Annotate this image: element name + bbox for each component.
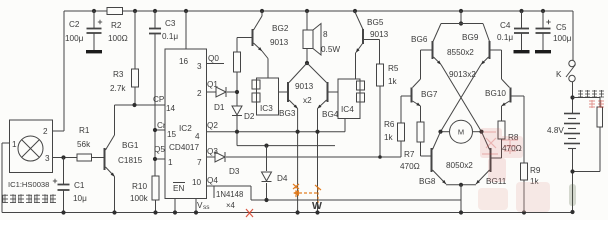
wire Q2 row: [207, 131, 346, 133]
transistor BG10 collector diag: [502, 79, 510, 88]
svg-text:CD4017: CD4017: [169, 143, 199, 152]
node junction rail BG4: [315, 210, 319, 214]
transistor BG8 emitter: [433, 170, 447, 184]
label R5: [388, 64, 399, 73]
wire IC2 pin16 vdd: [185, 11, 187, 49]
transistor BG3 emitter: [289, 100, 298, 109]
label R9: [530, 166, 541, 175]
wire speaker top stem: [306, 11, 308, 30]
svg-text:C1: C1: [74, 181, 85, 190]
wire switch to battery: [572, 82, 574, 113]
svg-text:C5: C5: [556, 23, 567, 32]
label IC2 pin 10: [192, 178, 202, 187]
label R2: [111, 21, 122, 30]
svg-text:x2: x2: [303, 96, 312, 105]
transistor BG5 collector: [355, 11, 364, 30]
svg-text:1k: 1k: [384, 133, 394, 142]
svg-text:1N4148: 1N4148: [216, 190, 243, 199]
svg-text:0.1μ: 0.1μ: [162, 32, 178, 41]
wire C3 top stem: [154, 11, 156, 29]
ir receiver IC1 lens circle: [18, 136, 43, 161]
svg-text:D3: D3: [229, 167, 240, 176]
node junction rail BG3: [296, 210, 300, 214]
wire base to R4: [236, 38, 238, 53]
label BG11: [486, 177, 507, 186]
svg-text:×4: ×4: [226, 201, 236, 210]
svg-text:Q0: Q0: [208, 54, 219, 63]
transistor BG7 base bar: [411, 88, 413, 103]
label battery 4.8V: [547, 126, 564, 135]
svg-text:8050x2: 8050x2: [446, 161, 473, 170]
resistor R8: [498, 121, 505, 139]
wire D4 top stem: [266, 146, 268, 171]
resistor R5: [377, 64, 384, 86]
wire charge branch: [573, 98, 601, 108]
svg-text:9013: 9013: [295, 82, 314, 91]
wire top supply rail left segment: [64, 10, 107, 12]
label diodes x4: [226, 201, 236, 210]
transistor BG6 emitter: [434, 57, 442, 65]
wire Vss to ground: [195, 199, 197, 213]
svg-text:470Ω: 470Ω: [400, 162, 420, 171]
wire BG1 emitter to ground rail: [114, 177, 116, 213]
svg-text:4: 4: [195, 132, 200, 141]
wire Q4 lead: [207, 185, 252, 187]
svg-text:8550x2: 8550x2: [447, 48, 474, 57]
svg-text:100μ: 100μ: [65, 34, 84, 43]
resistor R6: [398, 123, 405, 141]
node junction charge tap: [570, 95, 574, 99]
wire IC2 pin1 stub: [155, 158, 165, 160]
wire motor right lead: [473, 131, 482, 133]
label IC2 pin 16: [179, 57, 189, 66]
wire bridge top diag left: [433, 24, 441, 42]
label 9013x2 pair: [449, 70, 476, 79]
wire R9 bottom stem: [523, 180, 525, 213]
wire BG9 base drop: [501, 50, 503, 79]
svg-text:Q2: Q2: [207, 121, 218, 130]
transistor BG7 base lead: [401, 95, 411, 97]
svg-text:2: 2: [43, 127, 48, 136]
svg-text:1k: 1k: [388, 77, 398, 86]
node junction top rail at C3: [153, 9, 157, 13]
node junction top rail at C5: [541, 9, 545, 13]
svg-text:2: 2: [197, 89, 202, 98]
resistor R7: [417, 122, 424, 142]
wire D1 to R4 node: [227, 91, 237, 93]
svg-text:C4: C4: [500, 21, 511, 30]
watermark green smudge battery: [569, 184, 576, 206]
svg-text:BG1: BG1: [122, 141, 139, 150]
label C5: [556, 23, 567, 32]
label C2 value 100μ: [65, 34, 84, 43]
svg-text:K: K: [556, 70, 562, 79]
transistor BG7 collector diag: [413, 79, 421, 88]
charge jack symbol: [597, 107, 603, 127]
label IC2 pin 7: [197, 158, 202, 167]
svg-text:R10: R10: [132, 182, 147, 191]
svg-text:8: 8: [323, 30, 328, 39]
watermark red cross near IN4148: [246, 209, 253, 217]
transistor BG9 base lead: [491, 49, 502, 51]
node junction rail BG1: [112, 210, 116, 214]
label 8550x2 pair: [447, 48, 474, 57]
music chip IC3 tab upper: [252, 80, 260, 89]
svg-text:56k: 56k: [77, 140, 91, 149]
svg-text:R6: R6: [384, 120, 395, 129]
label IC2 pin 1: [168, 158, 173, 167]
label R1: [79, 126, 90, 135]
node junction speaker BG3 BG4 collectors: [305, 61, 309, 65]
label IC2 EN pin: [173, 183, 185, 194]
resistor R1: [77, 154, 92, 161]
label 8050x2 pair: [446, 161, 473, 170]
node junction motor right: [479, 130, 483, 134]
label BG6: [411, 35, 428, 44]
transistor BG9 emitter: [481, 57, 489, 65]
svg-text:R5: R5: [388, 64, 399, 73]
transistor BG5 base bar: [362, 29, 364, 44]
svg-text:R1: R1: [79, 126, 90, 135]
node junction top rail at IC2 pin16: [184, 9, 188, 13]
label BG4: [322, 110, 339, 119]
wire R5 bottom stem: [379, 86, 381, 157]
transistor BG4 emitter: [318, 100, 327, 109]
wire BG3 emitter drop: [297, 109, 299, 213]
motor M circle: [450, 120, 473, 143]
node junction R3 CP row: [132, 103, 136, 107]
switch K bottom contact: [569, 75, 575, 81]
wire far left ground drop: [1, 143, 3, 213]
svg-text:BG7: BG7: [421, 90, 438, 99]
svg-text:BG5: BG5: [367, 18, 384, 27]
svg-text:BG6: BG6: [411, 35, 428, 44]
resistor R4: [234, 52, 241, 72]
transistor BG2 emitter: [254, 43, 269, 78]
svg-text:15: 15: [167, 130, 177, 139]
svg-text:Q5: Q5: [154, 145, 165, 154]
label Q1: [207, 80, 218, 89]
transistor BG3 collector: [289, 63, 307, 83]
node junction top rail at C4: [519, 9, 523, 13]
svg-text:16: 16: [179, 57, 189, 66]
wire bridge top drop: [460, 11, 462, 24]
wire Q4 bottom row: [251, 199, 461, 201]
wire right column top: [572, 11, 574, 60]
label C1: [74, 181, 85, 190]
svg-text:Q4: Q4: [207, 176, 218, 185]
transistor BG1 emitter: [106, 167, 115, 177]
node junction rail R9: [522, 210, 526, 214]
label receiver pin 3: [45, 154, 50, 163]
transistor BG6 base lead: [421, 49, 432, 51]
label speaker 0.5W: [321, 45, 340, 54]
capacitor C4: [514, 29, 529, 34]
node junction top rail at speaker: [305, 9, 309, 13]
transistor BG4 base bar: [327, 82, 329, 102]
speaker Y1 cone: [313, 24, 321, 56]
node junction Q2 row D2: [235, 130, 239, 134]
label IC4: [341, 105, 354, 114]
label R5 value 1k: [388, 77, 398, 86]
capacitor C1 electrolytic: [53, 179, 70, 190]
node junction R5 Q3 row: [378, 155, 382, 159]
label Q2: [207, 121, 218, 130]
diode D4: [262, 172, 272, 182]
wire motor left lead: [441, 131, 450, 133]
node junction rail C1: [61, 210, 65, 214]
svg-text:C1815: C1815: [118, 156, 143, 165]
wire BG2 base: [237, 37, 252, 39]
transistor BG10 base bar: [510, 88, 512, 103]
wire R3 top stem: [134, 11, 136, 69]
wire Q4 drop: [250, 186, 252, 200]
label BG5: [367, 18, 384, 27]
svg-text:100μ: 100μ: [553, 34, 572, 43]
transistor BG3 base lead: [279, 91, 288, 93]
ground at C4: [514, 50, 530, 53]
label C5 value 100μ: [553, 34, 572, 43]
wire R4 bottom: [236, 72, 238, 106]
label R8 value 470Ω: [502, 144, 522, 153]
switch K blade: [566, 65, 576, 78]
node junction rail R10: [153, 210, 157, 214]
node junction top rail at BG5: [353, 9, 357, 13]
svg-text:BG3: BG3: [279, 109, 296, 118]
label BG2: [272, 24, 289, 33]
svg-text:9013: 9013: [370, 30, 389, 39]
capacitor C5 electrolytic: [536, 20, 551, 33]
label IC2 pin 4: [195, 132, 200, 141]
wire R8 top stem: [501, 106, 503, 121]
label receiver pin 2: [43, 127, 48, 136]
svg-text:D1: D1: [214, 103, 225, 112]
svg-text:D4: D4: [277, 174, 288, 183]
label C4 value 0.1μ: [497, 33, 513, 42]
wire D4 bottom stem: [266, 183, 268, 200]
wire IC4 bottom lead: [344, 119, 346, 132]
label BG10: [485, 89, 506, 98]
label IC2 Q5: [154, 145, 165, 154]
wire C1 bottom stem: [63, 191, 65, 213]
ir receiver IC1 lens cross: [22, 140, 39, 157]
wire C4 bottom stem: [521, 33, 523, 50]
wire R8 bottom stem: [491, 139, 502, 158]
wire bridge bottom drop: [460, 185, 462, 213]
label BG7: [421, 90, 438, 99]
wire IC2 pin15 stub: [155, 129, 165, 131]
wire R7 bottom stem: [421, 142, 431, 156]
resistor R10: [152, 176, 159, 200]
svg-text:IC3: IC3: [260, 104, 273, 113]
watermark W glyph: [312, 200, 322, 212]
music chip IC4 box: [338, 79, 360, 119]
wire BG5 emitter to IC4: [355, 53, 357, 80]
wire EN to ground: [174, 199, 176, 213]
label x2 pair: [303, 96, 312, 105]
label BG8: [419, 177, 436, 186]
wire bridge top bar: [441, 23, 483, 25]
diode D3: [215, 152, 225, 162]
capacitor C2 electrolytic: [87, 20, 103, 33]
wire D2 bottom: [236, 116, 238, 146]
wire IN4148 box left tick: [213, 186, 215, 198]
label receiver pin 1: [12, 140, 17, 149]
resistor R9: [521, 163, 528, 180]
capacitor C1 stem top: [63, 158, 65, 185]
label R3: [113, 70, 124, 79]
transistor BG4 collector: [307, 63, 327, 83]
svg-text:1: 1: [168, 158, 173, 167]
node junction BG4 emitter Q2 row: [315, 130, 319, 134]
label IC1 HS0038: [8, 180, 49, 189]
label diodes IN4148: [216, 190, 243, 199]
op IC2 CD4017 box: [165, 49, 207, 199]
node junction top rail at BG2: [260, 9, 264, 13]
svg-text:R9: R9: [530, 166, 541, 175]
transistor BG3 base bar: [287, 82, 289, 102]
transistor BG8 collector: [433, 132, 441, 150]
wire receiver pin2 lead: [53, 130, 65, 132]
wire bridge emitter bar: [446, 184, 476, 186]
svg-text:BG2: BG2: [272, 24, 289, 33]
music chip IC4 tab upper: [357, 81, 365, 90]
transistor BG1 collector: [106, 105, 115, 150]
wire BG9 emitter to motor left: [441, 65, 482, 132]
watermark faint red bottom right: [478, 182, 550, 212]
wire D2 D4 row: [237, 145, 335, 147]
label IC2 pin 2: [197, 89, 202, 98]
label IC2 Cr: [157, 121, 166, 130]
wire BG6 base drop: [420, 50, 422, 79]
svg-text:9013: 9013: [270, 38, 289, 47]
music chip IC3 tab lower: [252, 93, 260, 102]
svg-text:0.1μ: 0.1μ: [497, 33, 513, 42]
svg-text:9013x2: 9013x2: [449, 70, 476, 79]
transistor BG11 emitter: [476, 170, 490, 184]
wire R10 bottom: [155, 200, 157, 213]
wire R7 top stem: [420, 106, 422, 122]
svg-text:CP: CP: [153, 95, 165, 104]
svg-text:10μ: 10μ: [73, 194, 87, 203]
svg-text:M: M: [458, 128, 464, 137]
node junction motor left: [438, 130, 442, 134]
watermark red blotch right: [480, 128, 523, 182]
label IC2 pin 3: [197, 62, 202, 71]
resistor R2: [107, 8, 123, 15]
resistor R3: [132, 69, 139, 87]
ir receiver IC1 box: [10, 120, 53, 173]
label IC2 Vss: [197, 201, 210, 211]
wire speaker bottom stem: [306, 49, 308, 64]
label R7: [404, 150, 415, 159]
svg-text:4.8V: 4.8V: [547, 126, 564, 135]
label BG3: [279, 109, 296, 118]
svg-text:Cr: Cr: [157, 121, 166, 130]
label D1: [214, 103, 225, 112]
node junction C3 line pin15: [153, 128, 157, 132]
label R1 value 56k: [77, 140, 91, 149]
switch K top contact: [569, 60, 575, 66]
svg-text:D2: D2: [244, 112, 255, 121]
label Q3: [207, 147, 218, 156]
wire C5 top stem: [542, 11, 544, 29]
svg-text:10: 10: [192, 178, 202, 187]
svg-text:1: 1: [12, 140, 17, 149]
label R3 value 2.7k: [110, 84, 126, 93]
label C1 value 10μ: [73, 194, 87, 203]
wire R1 to BG1 base: [92, 157, 104, 159]
label IC3: [260, 104, 273, 113]
diode D1: [216, 87, 226, 97]
label BG1: [122, 141, 139, 150]
node junction rail EN: [173, 210, 177, 214]
label R10 value 100k: [130, 194, 149, 203]
label R7 value 470Ω: [400, 162, 420, 171]
transistor BG1 base bar: [104, 148, 106, 170]
svg-text:ss: ss: [203, 204, 210, 211]
wire receiver pin1 lead: [2, 142, 10, 144]
label 9013 pair: [295, 82, 314, 91]
wire top supply rail right segment: [123, 10, 574, 12]
wire C4 top stem: [521, 11, 523, 29]
svg-text:BG4: BG4: [322, 110, 339, 119]
wire bottom ground rail: [2, 212, 574, 214]
svg-text:BG10: BG10: [485, 89, 506, 98]
wire jack bottom: [573, 127, 601, 172]
label motor M: [458, 128, 464, 137]
ground at C5: [535, 50, 551, 53]
speaker Y1 magnet box: [303, 30, 313, 49]
svg-text:100k: 100k: [130, 194, 149, 203]
node junction rail bridge: [459, 210, 463, 214]
wire R6 top stem: [400, 96, 402, 123]
wire R9 top stem: [523, 96, 525, 163]
label IC2 CP: [153, 95, 165, 104]
svg-text:EN: EN: [173, 184, 184, 193]
label BG1 type C1815: [118, 156, 143, 165]
label C3 value 0.1μ: [162, 32, 178, 41]
transistor BG10 emitter: [502, 101, 510, 106]
wire C2 bottom stem: [93, 33, 95, 50]
transistor BG2 collector: [254, 11, 263, 30]
node junction C3 line pin1: [153, 157, 157, 161]
transistor BG5 emitter: [356, 44, 363, 53]
label IC2 pin 14: [166, 104, 176, 113]
svg-text:7: 7: [197, 158, 202, 167]
node junction bridge top: [459, 21, 463, 25]
wire bridge top diag right: [483, 24, 490, 42]
node junction pin3 R1 C1: [61, 155, 65, 159]
label D3: [229, 167, 240, 176]
wire battery bottom: [572, 149, 574, 213]
music chip IC4 tab lower: [357, 93, 365, 102]
node junction top rail at C2: [92, 9, 96, 13]
transistor BG2 base bar: [252, 29, 254, 46]
svg-text:C2: C2: [69, 20, 80, 29]
label Q4: [207, 176, 218, 185]
svg-text:W: W: [312, 200, 322, 212]
node junction battery jack return: [570, 169, 574, 173]
svg-text:IC4: IC4: [341, 105, 354, 114]
label IC2 type CD4017: [169, 143, 199, 152]
label BG2 type 9013: [270, 38, 289, 47]
svg-text:3: 3: [197, 62, 202, 71]
transistor BG8 base bar: [431, 148, 433, 172]
label R9 value 1k: [530, 177, 540, 186]
diode D2: [232, 106, 242, 116]
label charge jack chinese: [578, 90, 604, 98]
